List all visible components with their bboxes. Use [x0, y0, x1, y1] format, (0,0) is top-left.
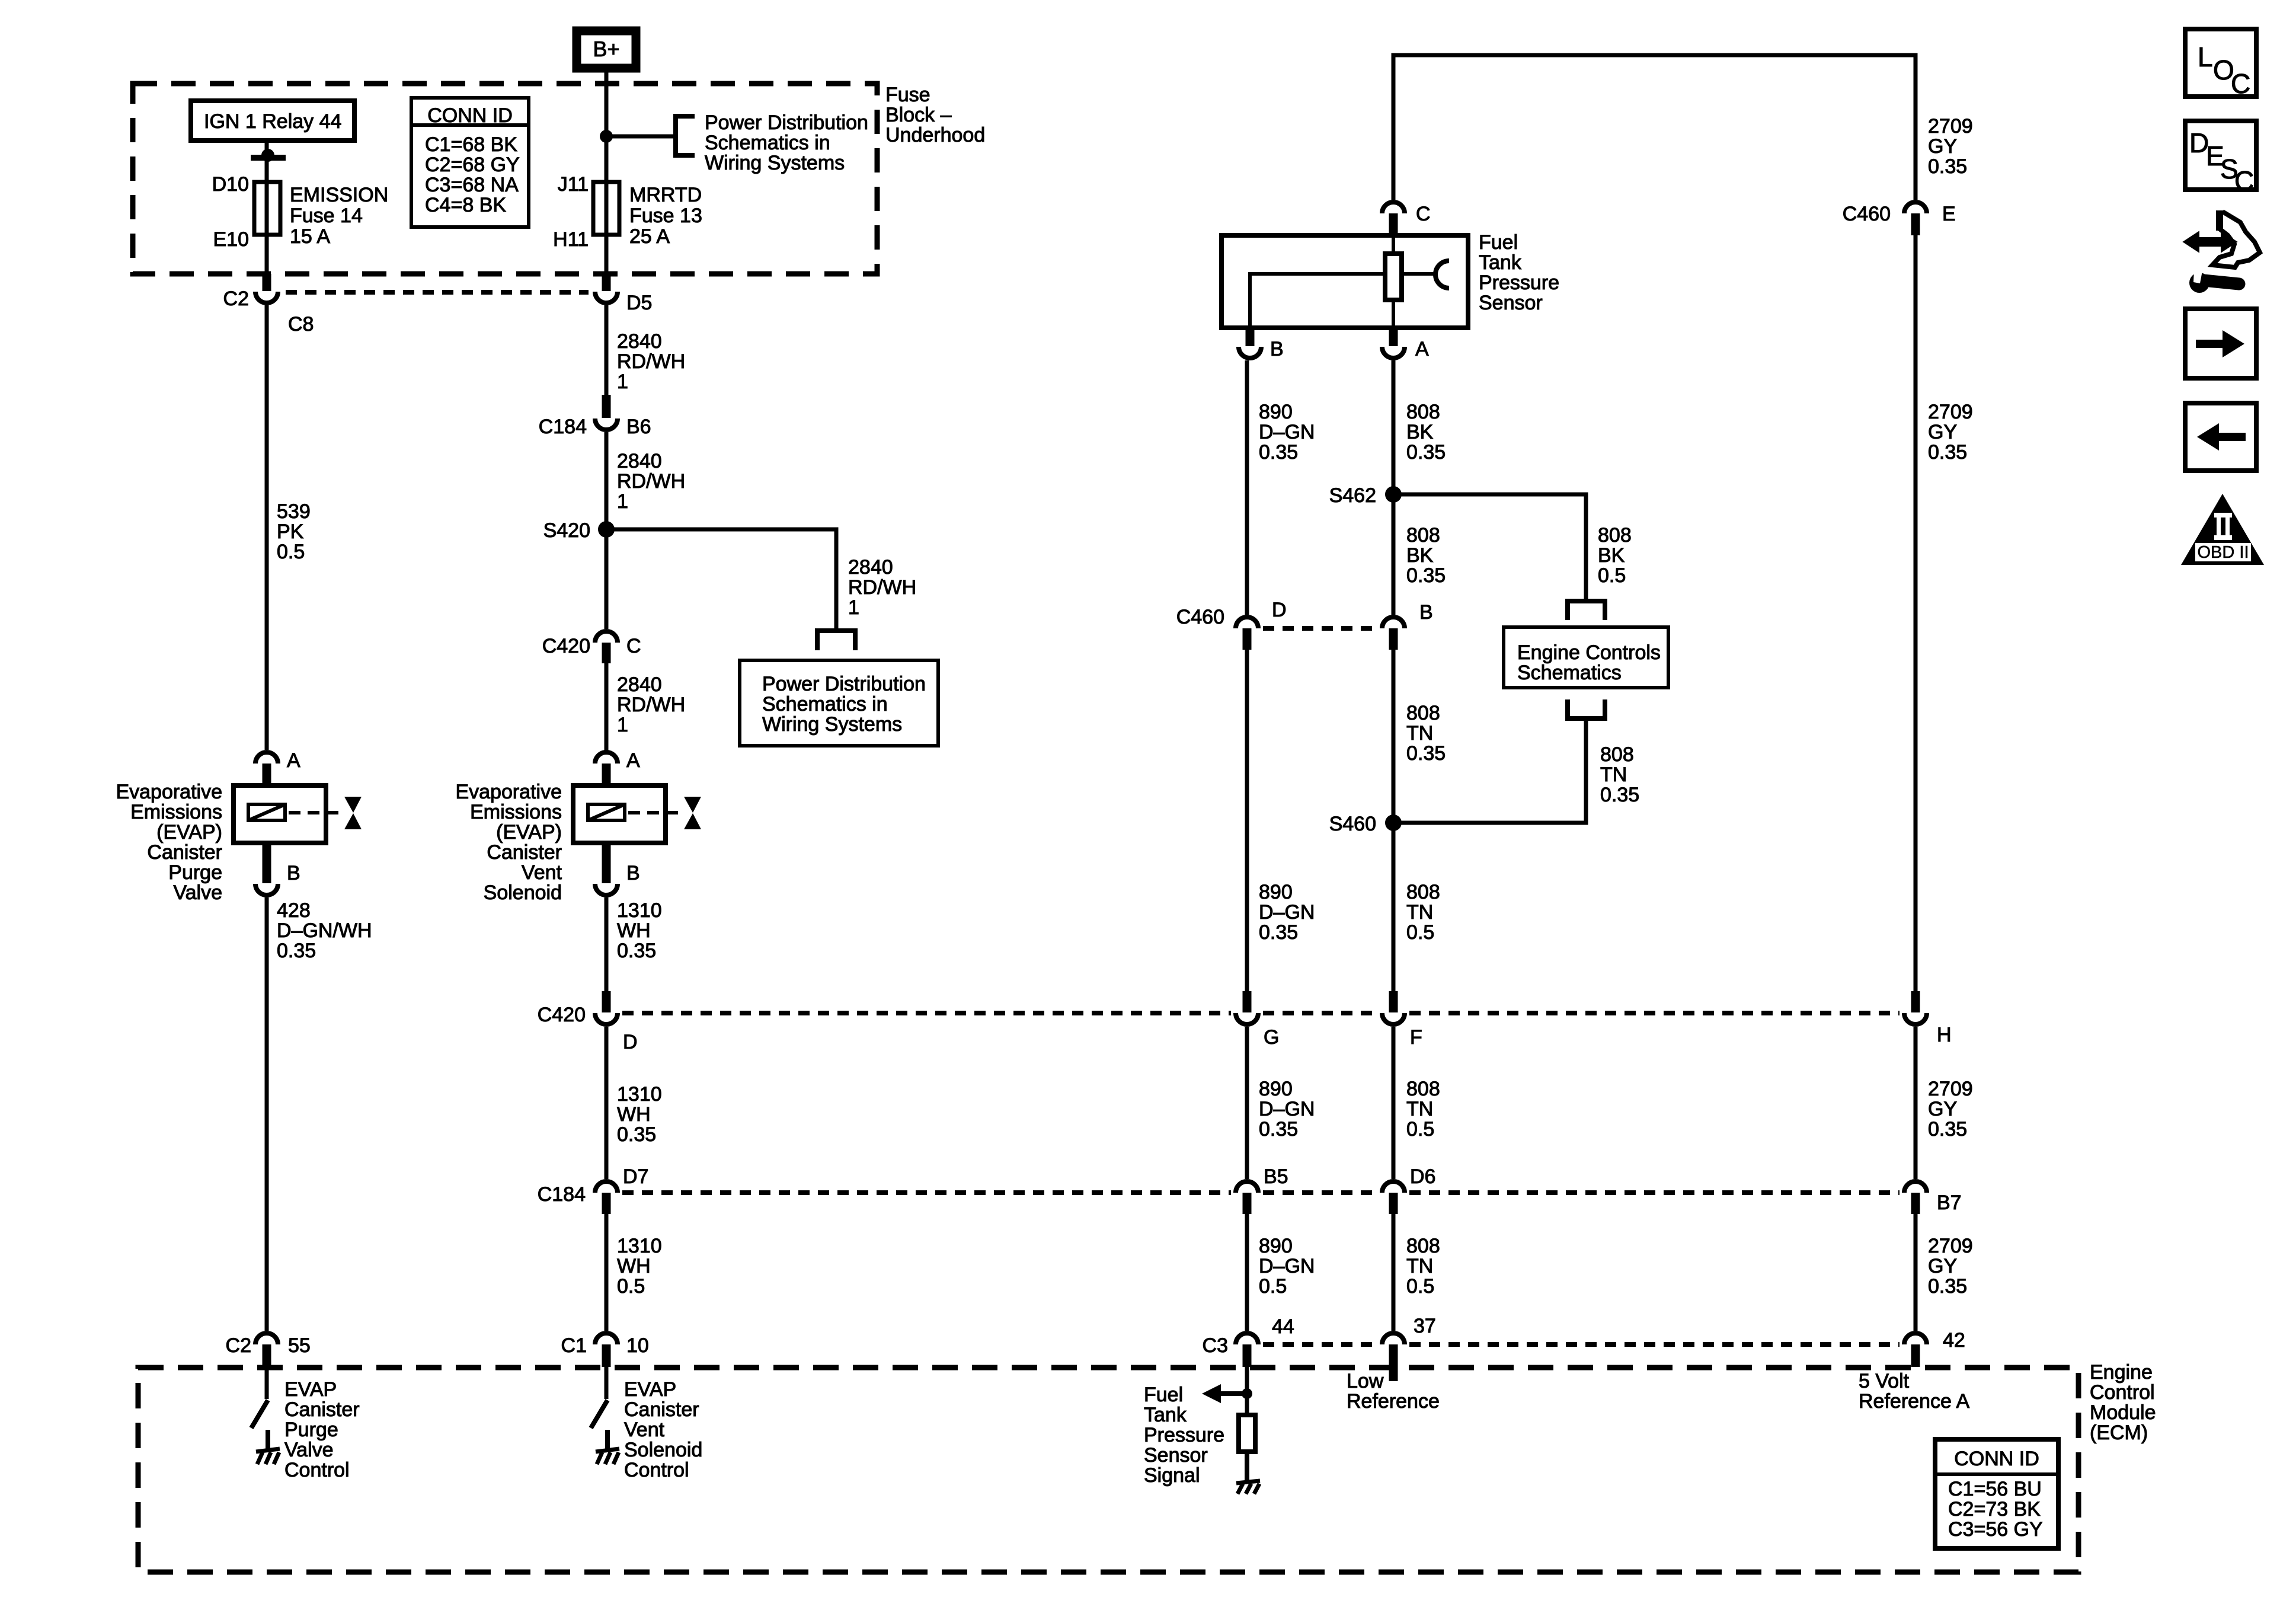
svg-text:H: H	[1937, 1024, 1952, 1046]
svg-text:55: 55	[288, 1334, 311, 1357]
engine controls schematics box	[1504, 627, 1668, 688]
svg-text:PK: PK	[277, 520, 304, 543]
svg-text:E: E	[1942, 203, 1956, 225]
connector D6	[1382, 1165, 1435, 1193]
svg-text:Vent: Vent	[624, 1419, 665, 1441]
svg-text:D5: D5	[626, 292, 652, 314]
svg-text:(EVAP): (EVAP)	[156, 821, 222, 844]
svg-text:BK: BK	[1598, 544, 1625, 567]
svg-text:Canister: Canister	[147, 841, 222, 864]
svg-text:Pressure: Pressure	[1479, 271, 1559, 294]
svg-text:C2=68 GY: C2=68 GY	[425, 154, 520, 176]
connector C2 pin 55	[226, 1333, 311, 1357]
svg-text:Evaporative: Evaporative	[455, 781, 562, 803]
vent valve seat (bowtie)	[684, 797, 701, 829]
icon: wrench	[2189, 270, 2239, 293]
svg-text:RD/WH: RD/WH	[617, 350, 685, 373]
svg-text:OBD II: OBD II	[2197, 543, 2249, 562]
svg-text:1: 1	[617, 490, 628, 513]
dashed connector line 44-37	[1263, 1342, 1377, 1347]
battery feed B+	[577, 31, 636, 68]
svg-text:Module: Module	[2090, 1401, 2156, 1424]
power distribution schematics box	[740, 660, 938, 746]
svg-text:C420: C420	[542, 635, 590, 657]
wire resistor to ground	[1245, 1452, 1249, 1480]
svg-text:Wiring Systems: Wiring Systems	[705, 152, 845, 174]
svg-text:C184: C184	[538, 1183, 586, 1206]
svg-text:WH: WH	[617, 1103, 651, 1126]
stub below C2 55	[263, 1344, 271, 1367]
connector H	[1904, 1013, 1952, 1046]
svg-text:C2: C2	[226, 1334, 251, 1357]
wire 428 D-GN/WH 0.35	[267, 897, 372, 1331]
svg-text:Pressure: Pressure	[1144, 1424, 1224, 1446]
connector C460 pin D	[1176, 599, 1287, 628]
svg-text:RD/WH: RD/WH	[617, 694, 685, 716]
svg-text:0.35: 0.35	[1259, 921, 1298, 944]
svg-text:(ECM): (ECM)	[2090, 1421, 2148, 1444]
off-page staple above engine controls box	[1568, 601, 1605, 620]
svg-text:Control: Control	[624, 1459, 689, 1481]
svg-text:890: 890	[1259, 1235, 1293, 1257]
svg-text:RD/WH: RD/WH	[617, 470, 685, 493]
sensor internal wire B side	[1250, 274, 1385, 328]
wire B+ to fuse 13	[605, 72, 609, 275]
splice S460	[1329, 813, 1402, 835]
svg-text:WH: WH	[617, 919, 651, 942]
stub below C460 D	[1243, 628, 1252, 650]
fuse 13 value label	[629, 184, 702, 248]
wire engine controls to S460	[1393, 718, 1639, 823]
svg-text:C1: C1	[561, 1334, 587, 1357]
svg-text:L: L	[2198, 41, 2213, 72]
label 2709 GY 0.35 (top)	[1928, 115, 1973, 178]
svg-text:2709: 2709	[1928, 115, 1973, 138]
svg-text:2840: 2840	[617, 330, 662, 353]
svg-text:B: B	[1270, 338, 1284, 360]
connector G	[1236, 1013, 1279, 1049]
fuel tank pressure sensor signal label	[1144, 1384, 1224, 1487]
svg-text:TN: TN	[1406, 901, 1433, 924]
splice S462	[1329, 484, 1402, 507]
stub below C420 C	[602, 643, 611, 663]
svg-text:2840: 2840	[617, 673, 662, 696]
svg-text:D: D	[623, 1031, 638, 1053]
stub below 37	[1389, 1344, 1398, 1381]
connector A (vent solenoid)	[595, 749, 640, 772]
svg-text:808: 808	[1406, 401, 1440, 423]
svg-text:C: C	[626, 635, 641, 657]
EVAP canister purge valve control label	[284, 1378, 360, 1481]
icon: OBD II triangle	[2181, 494, 2264, 565]
purge valve link dashes	[289, 811, 343, 814]
svg-text:0.5: 0.5	[1406, 921, 1434, 944]
ground (purge control)	[256, 1430, 280, 1464]
svg-text:Canister: Canister	[624, 1398, 699, 1421]
stub below purge valve	[263, 843, 271, 883]
node: B+ branch junction	[600, 130, 613, 143]
fuel tank pressure sensor box	[1221, 235, 1468, 328]
svg-text:Power Distribution: Power Distribution	[705, 111, 868, 134]
icon: back arrow box	[2185, 403, 2256, 471]
svg-text:Fuse 13: Fuse 13	[629, 205, 702, 227]
connector C1 pin 10	[561, 1333, 649, 1357]
svg-text:Sensor: Sensor	[1144, 1444, 1208, 1467]
svg-text:808: 808	[1598, 524, 1632, 547]
wire 2709 GY 0.35 (B7 to 42)	[1916, 1214, 1973, 1331]
wire relay to fuse 14	[265, 140, 269, 275]
wire S462 branch to engine controls	[1393, 494, 1632, 601]
svg-text:Reference A: Reference A	[1859, 1390, 1969, 1413]
svg-text:Evaporative: Evaporative	[116, 781, 222, 803]
wire 808 BK 0.35 (S462 to C460 B)	[1393, 494, 1446, 615]
svg-text:0.35: 0.35	[1259, 441, 1298, 464]
stub above F	[1389, 991, 1398, 1012]
connector pin 37	[1382, 1315, 1436, 1344]
svg-text:1310: 1310	[617, 899, 662, 922]
connector B7	[1904, 1181, 1962, 1214]
svg-text:2709: 2709	[1928, 1078, 1973, 1100]
stub below sensor A	[1389, 328, 1398, 346]
sensor internal element	[1385, 235, 1402, 328]
svg-text:B: B	[287, 862, 300, 884]
stub above C420 D	[602, 991, 611, 1012]
icon: LOC box	[2185, 29, 2256, 99]
wire 890 D-GN 0.35 (B to C460 D)	[1247, 360, 1315, 615]
svg-text:Purge: Purge	[168, 861, 222, 884]
pin H11	[553, 228, 589, 251]
svg-text:0.5: 0.5	[1406, 1275, 1434, 1298]
wire 890 D-GN 0.35 (D to G)	[1247, 650, 1315, 999]
connector B5	[1236, 1165, 1288, 1193]
dashed connector line C2-D5	[286, 290, 589, 295]
svg-text:890: 890	[1259, 881, 1293, 903]
icon: diagnostic zigzag outline	[2212, 210, 2260, 267]
svg-text:BK: BK	[1406, 544, 1434, 567]
stub below B7	[1911, 1193, 1920, 1214]
svg-text:1: 1	[617, 714, 628, 736]
svg-text:Canister: Canister	[284, 1398, 360, 1421]
svg-text:C460: C460	[1843, 203, 1891, 225]
svg-text:TN: TN	[1406, 1255, 1433, 1277]
svg-text:Fuse 14: Fuse 14	[290, 205, 363, 227]
wire junction to power distribution reference	[606, 135, 676, 139]
connector C460 pin B	[1382, 601, 1433, 628]
wire 2709 GY 0.35 (E to H)	[1916, 235, 1973, 999]
svg-text:C4=8 BK: C4=8 BK	[425, 194, 506, 216]
icon: DESC box	[2185, 121, 2256, 196]
stub below A (vent)	[602, 764, 611, 785]
svg-text:0.5: 0.5	[1598, 564, 1626, 587]
connector C420 pin D	[538, 1004, 638, 1053]
svg-text:D–GN: D–GN	[1259, 421, 1315, 443]
wire 1310 WH 0.35 (D to D7)	[606, 1027, 662, 1179]
wire 2840 RD/WH (B6 to S420)	[606, 432, 685, 529]
fuse block label	[885, 84, 985, 146]
wire branch S420 to off-page	[606, 529, 916, 631]
svg-text:Tank: Tank	[1144, 1404, 1187, 1426]
svg-text:D–GN: D–GN	[1259, 1255, 1315, 1277]
svg-text:0.35: 0.35	[1406, 441, 1446, 464]
stub below C460 B	[1389, 628, 1398, 650]
splice S420	[543, 519, 615, 542]
svg-text:0.5: 0.5	[617, 1275, 645, 1298]
stub below D6	[1389, 1193, 1398, 1214]
stub below A (purge)	[263, 764, 271, 785]
svg-text:B7: B7	[1937, 1191, 1962, 1214]
svg-text:808: 808	[1406, 881, 1440, 903]
svg-text:428: 428	[277, 899, 311, 922]
svg-text:808: 808	[1406, 702, 1440, 724]
svg-text:0.35: 0.35	[1600, 784, 1639, 806]
dashed connector line C460 D-B	[1263, 626, 1377, 631]
pin J11	[558, 173, 589, 196]
dashed row D7 - B5 - D6 - B7	[622, 1190, 1900, 1195]
svg-text:A: A	[287, 749, 300, 772]
vent solenoid coil	[588, 804, 625, 820]
svg-text:GY: GY	[1928, 135, 1957, 158]
svg-text:C184: C184	[539, 416, 587, 438]
off-page staple (to power distribution box)	[817, 631, 855, 650]
svg-text:Low: Low	[1347, 1370, 1384, 1392]
svg-text:B+: B+	[593, 37, 619, 61]
svg-text:GY: GY	[1928, 1255, 1957, 1277]
CONN ID table (fuse block)	[411, 98, 529, 227]
svg-text:25 A: 25 A	[629, 225, 670, 248]
EVAP canister purge valve (solenoid box)	[234, 785, 326, 843]
svg-text:Fuel: Fuel	[1479, 231, 1518, 254]
svg-text:B: B	[1419, 601, 1433, 624]
svg-text:808: 808	[1406, 1078, 1440, 1100]
wire S420 to C420 C	[605, 529, 609, 629]
svg-text:Solenoid: Solenoid	[484, 881, 562, 904]
signal junction dot	[1242, 1388, 1252, 1399]
stub above G	[1243, 991, 1252, 1012]
connector A (purge valve)	[255, 749, 300, 772]
svg-text:S460: S460	[1329, 813, 1376, 835]
svg-text:S420: S420	[543, 519, 590, 542]
wire 808 TN 0.35 (B to S460)	[1393, 650, 1446, 823]
svg-text:S462: S462	[1329, 484, 1376, 507]
connector pin 42	[1904, 1329, 1965, 1352]
svg-text:J11: J11	[558, 173, 589, 196]
svg-text:Underhood: Underhood	[885, 124, 985, 146]
stub below 42	[1911, 1344, 1920, 1367]
svg-text:Wiring Systems: Wiring Systems	[762, 713, 902, 736]
svg-text:E10: E10	[213, 228, 250, 251]
svg-text:CONN ID: CONN ID	[1954, 1448, 2039, 1470]
internal resistor	[1239, 1415, 1255, 1452]
wire 1310 WH 0.35 (B to C420 D)	[606, 897, 662, 991]
purge valve control switch	[251, 1367, 268, 1428]
ground (sensor signal)	[1236, 1481, 1260, 1494]
wire 2840 RD/WH (C420 to valve A)	[606, 663, 685, 750]
svg-text:B6: B6	[626, 416, 651, 438]
stub above D5 connector	[602, 274, 611, 291]
svg-text:WH: WH	[617, 1255, 651, 1277]
svg-text:C1=56 BU: C1=56 BU	[1948, 1478, 2042, 1500]
svg-text:C3=56 GY: C3=56 GY	[1948, 1518, 2043, 1541]
dashed connector line 37-42	[1409, 1342, 1900, 1347]
svg-text:Canister: Canister	[487, 841, 562, 864]
svg-text:Valve: Valve	[284, 1439, 334, 1461]
svg-text:Signal: Signal	[1144, 1464, 1200, 1487]
svg-text:Emissions: Emissions	[470, 801, 562, 823]
svg-text:CONN ID: CONN ID	[427, 104, 513, 127]
wire 808 TN 0.5 (D6 to 37)	[1393, 1214, 1440, 1331]
stub below vent solenoid	[602, 843, 611, 883]
svg-text:Engine: Engine	[2090, 1361, 2153, 1384]
svg-text:2840: 2840	[617, 450, 662, 472]
vent solenoid name	[455, 781, 562, 904]
svg-text:0.35: 0.35	[1928, 441, 1967, 464]
svg-text:(EVAP): (EVAP)	[496, 821, 562, 844]
svg-text:MRRTD: MRRTD	[629, 184, 702, 206]
pin D10	[212, 173, 249, 196]
connector F	[1382, 1013, 1422, 1049]
svg-text:F: F	[1410, 1026, 1422, 1049]
svg-text:C2=73 BK: C2=73 BK	[1948, 1498, 2041, 1520]
stub below sensor B	[1246, 328, 1255, 346]
svg-text:H11: H11	[553, 228, 589, 251]
svg-text:808: 808	[1406, 524, 1440, 547]
connector C184 pin B6	[539, 416, 651, 438]
fuse 14 value label	[290, 184, 388, 248]
wire 890 D-GN 0.5 (B5 to C3 44)	[1247, 1214, 1315, 1331]
svg-text:Engine Controls: Engine Controls	[1517, 641, 1661, 664]
svg-text:37: 37	[1414, 1315, 1436, 1337]
svg-text:TN: TN	[1406, 1098, 1433, 1120]
svg-text:TN: TN	[1406, 722, 1433, 745]
svg-text:808: 808	[1600, 743, 1634, 766]
svg-text:Emissions: Emissions	[130, 801, 222, 823]
svg-text:1310: 1310	[617, 1235, 662, 1257]
signal arrow	[1202, 1384, 1247, 1403]
svg-text:0.35: 0.35	[1406, 564, 1446, 587]
svg-text:IGN 1 Relay 44: IGN 1 Relay 44	[204, 110, 341, 133]
svg-text:BK: BK	[1406, 421, 1434, 443]
svg-text:0.35: 0.35	[1259, 1118, 1298, 1141]
relay contact dot	[261, 149, 274, 162]
connector A (sensor)	[1382, 338, 1429, 360]
svg-text:C8: C8	[288, 313, 314, 336]
svg-text:C3: C3	[1203, 1334, 1228, 1357]
icon: diagnostic double arrow	[2185, 233, 2236, 251]
svg-text:15 A: 15 A	[290, 225, 330, 248]
IGN 1 relay 44 box	[191, 101, 354, 140]
svg-text:Purge: Purge	[284, 1419, 338, 1441]
svg-text:Valve: Valve	[173, 881, 222, 904]
svg-text:Block –: Block –	[885, 104, 952, 126]
EVAP canister vent solenoid (box)	[573, 785, 666, 843]
svg-text:Fuel: Fuel	[1144, 1384, 1183, 1406]
fuel tank pressure sensor signal wire	[1245, 1367, 1249, 1415]
wire 808 TN 0.5 (F to D6)	[1393, 1027, 1440, 1179]
svg-text:Power Distribution: Power Distribution	[762, 673, 926, 695]
stub below E	[1911, 213, 1920, 235]
low reference label	[1347, 1370, 1440, 1413]
svg-text:1: 1	[617, 370, 628, 393]
fuel tank pressure sensor name	[1479, 231, 1559, 314]
stub below D7	[602, 1193, 611, 1214]
stub above B6	[602, 395, 611, 418]
svg-text:2709: 2709	[1928, 401, 1973, 423]
svg-text:GY: GY	[1928, 421, 1957, 443]
wire 2709 GY 0.35 (H to B7)	[1916, 1027, 1973, 1179]
stub below C3 44	[1243, 1344, 1252, 1367]
fuse F14 EMISSION	[254, 182, 280, 235]
purge valve name	[116, 781, 222, 904]
svg-text:890: 890	[1259, 1078, 1293, 1100]
connector C2 (fuse block) pin C8	[223, 287, 314, 336]
fuse F13 MRRTD	[593, 182, 619, 235]
svg-text:C420: C420	[538, 1004, 586, 1026]
stub below C	[1389, 213, 1398, 235]
wire 890 D-GN 0.35 (G to B5)	[1247, 1027, 1315, 1179]
CONN ID table (ECM)	[1935, 1439, 2058, 1548]
svg-text:Tank: Tank	[1479, 251, 1522, 274]
svg-text:Schematics in: Schematics in	[762, 693, 888, 715]
off-page bracket: power distribution	[676, 116, 695, 155]
purge valve coil	[248, 804, 285, 820]
svg-text:C2: C2	[223, 287, 249, 310]
svg-text:C3=68 NA: C3=68 NA	[425, 174, 519, 196]
connector C3 pin 44	[1203, 1315, 1294, 1357]
connector C420 pin C	[542, 631, 641, 657]
svg-text:0.35: 0.35	[617, 1123, 656, 1146]
wire 808 BK 0.35 (A to S462)	[1393, 360, 1446, 494]
stub below C1 10	[602, 1344, 611, 1367]
connector C460 pin E	[1843, 202, 1956, 225]
wire 539 PK 0.5	[267, 305, 311, 750]
svg-text:Sensor: Sensor	[1479, 292, 1543, 314]
purge valve seat (bowtie)	[344, 797, 362, 829]
svg-text:0.5: 0.5	[1259, 1275, 1287, 1298]
connector B (sensor)	[1239, 338, 1284, 360]
vent solenoid control switch	[591, 1367, 607, 1428]
svg-text:D–GN: D–GN	[1259, 901, 1315, 924]
svg-text:Control: Control	[2090, 1381, 2155, 1404]
connector B (vent solenoid)	[595, 862, 640, 895]
svg-text:D: D	[1272, 599, 1287, 621]
relay contact bar	[251, 155, 286, 161]
svg-text:Schematics: Schematics	[1517, 662, 1622, 684]
off-page staple below engine controls box	[1568, 699, 1605, 718]
svg-text:Vent: Vent	[522, 861, 562, 884]
svg-text:0.35: 0.35	[277, 940, 316, 962]
svg-text:C460: C460	[1176, 606, 1224, 628]
svg-text:2840: 2840	[848, 556, 893, 579]
svg-text:EVAP: EVAP	[624, 1378, 676, 1401]
svg-text:D6: D6	[1410, 1165, 1435, 1188]
svg-text:0.35: 0.35	[1928, 1118, 1967, 1141]
EVAP canister vent solenoid control label	[624, 1378, 702, 1481]
svg-text:D10: D10	[212, 173, 249, 196]
svg-text:539: 539	[277, 500, 311, 523]
svg-text:Solenoid: Solenoid	[624, 1439, 702, 1461]
svg-text:RD/WH: RD/WH	[848, 576, 916, 599]
svg-text:A: A	[626, 749, 640, 772]
svg-text:10: 10	[626, 1334, 649, 1357]
fuse block - underhood (dashed box)	[133, 84, 877, 274]
svg-text:EMISSION: EMISSION	[290, 184, 388, 206]
svg-text:0.35: 0.35	[1406, 742, 1446, 765]
dashed row C420 D - G - F - H	[622, 1011, 1900, 1015]
svg-text:Control: Control	[284, 1459, 350, 1481]
power distribution reference text	[705, 111, 868, 174]
svg-text:42: 42	[1943, 1329, 1965, 1352]
svg-text:0.35: 0.35	[1928, 1275, 1967, 1298]
